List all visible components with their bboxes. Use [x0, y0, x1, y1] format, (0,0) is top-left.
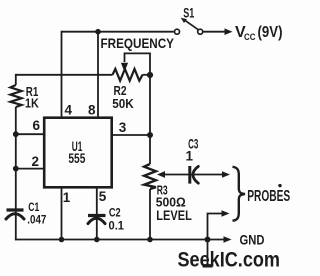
svg-text:GND: GND	[240, 232, 265, 248]
node pin 1 / ground junction	[59, 237, 65, 243]
node pin 2 junction	[13, 166, 19, 172]
node R2 wiper loop junction	[147, 72, 153, 78]
wire R2 wiper loop	[125, 53, 151, 74]
svg-text:8: 8	[88, 103, 96, 118]
wire pin6	[15, 133, 45, 135]
capacitor C1	[6, 210, 24, 219]
svg-text:FREQUENCY: FREQUENCY	[101, 35, 175, 51]
svg-text:S1: S1	[183, 4, 194, 20]
svg-text:.047: .047	[27, 212, 46, 226]
probes arrow head bottom	[222, 210, 230, 217]
svg-text:LEVEL: LEVEL	[156, 207, 192, 223]
wire left rail	[15, 74, 17, 241]
svg-text:4: 4	[65, 103, 73, 118]
switch S1	[175, 20, 203, 35]
node pin 6 junction	[13, 131, 19, 137]
wire pin3	[111, 134, 150, 136]
wire pin2	[15, 168, 45, 170]
R3 wiper arrow	[157, 171, 165, 178]
dot above PROBES E	[278, 184, 281, 187]
svg-text:0.1: 0.1	[109, 219, 125, 233]
svg-text:5: 5	[99, 189, 107, 204]
wire probes elbow	[208, 214, 224, 240]
resistor R3	[144, 164, 156, 189]
wire top rail Vcc	[62, 31, 174, 33]
probes arrow head top	[222, 171, 230, 178]
R2 wiper arrow	[121, 63, 128, 72]
wire R2 right lead	[143, 74, 151, 76]
wire bottom rail	[15, 239, 208, 241]
svg-text:50K: 50K	[112, 96, 134, 111]
probes brace	[233, 167, 246, 221]
ground bar	[203, 264, 213, 267]
wire R3 wiper through C3 to probes arrow	[162, 174, 224, 176]
svg-text:SeekIC.com: SeekIC.com	[178, 249, 281, 272]
svg-text:1K: 1K	[25, 96, 39, 111]
svg-text:6: 6	[33, 118, 41, 133]
wire pin5 vertical	[96, 187, 98, 240]
wire mid horizontal to R2	[16, 74, 113, 76]
wire Vcc arrow line	[203, 31, 225, 33]
ground stub over watermark	[207, 240, 209, 265]
GND arrow head	[224, 236, 232, 243]
wire GND arrow line	[208, 239, 225, 241]
svg-text:(9V): (9V)	[258, 24, 283, 41]
svg-text:C2: C2	[109, 205, 121, 219]
node C2 / ground junction	[94, 237, 100, 243]
svg-text:PROBES: PROBES	[247, 188, 290, 205]
wire pin8 vertical	[97, 32, 99, 119]
svg-text:1: 1	[186, 149, 194, 164]
wire right vertical	[149, 75, 151, 241]
capacitor C3	[190, 166, 199, 184]
switch lever arrowhead	[181, 18, 187, 23]
node Vcc rail / pin 8 junction	[95, 29, 101, 35]
resistor R1	[10, 85, 21, 107]
svg-text:1: 1	[63, 190, 71, 205]
resistor R2	[113, 69, 143, 81]
svg-text:2: 2	[32, 154, 40, 169]
svg-text:555: 555	[68, 151, 85, 166]
wire pin4 vertical	[61, 31, 63, 119]
svg-text:CC: CC	[244, 32, 256, 43]
node pin 3 junction	[147, 132, 153, 138]
svg-text:3: 3	[119, 120, 127, 135]
op IC U1 555 box	[44, 118, 112, 188]
capacitor C2	[88, 216, 106, 224]
wire pin1 vertical	[61, 187, 63, 240]
node GND junction	[205, 237, 211, 243]
node R3 / ground junction	[147, 237, 153, 243]
Vcc arrow head	[225, 28, 233, 35]
